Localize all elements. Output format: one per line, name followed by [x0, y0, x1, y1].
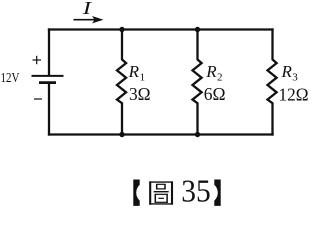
svg-text:3: 3 [292, 72, 298, 84]
svg-text:3Ω: 3Ω [129, 84, 151, 104]
svg-text:2: 2 [217, 72, 223, 84]
svg-text:35: 35 [181, 172, 211, 208]
svg-text:R: R [281, 62, 293, 81]
svg-text:I: I [81, 0, 92, 18]
svg-text:12V: 12V [1, 70, 20, 85]
svg-text:6Ω: 6Ω [204, 84, 226, 104]
svg-text:R: R [205, 62, 217, 81]
svg-text:R: R [128, 62, 140, 81]
svg-text:1: 1 [140, 72, 146, 84]
svg-text:12Ω: 12Ω [279, 84, 309, 104]
